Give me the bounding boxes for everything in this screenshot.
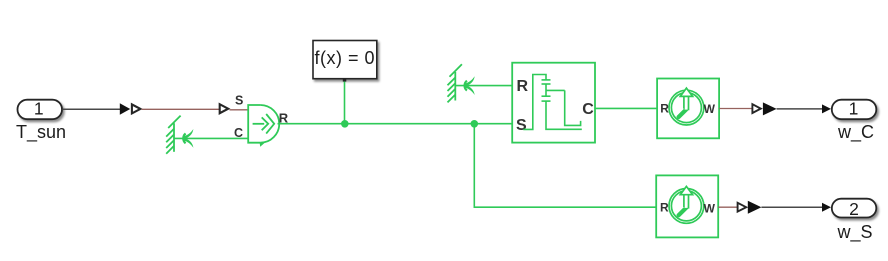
PS wire stub into S port [230,109,249,111]
PS wire converter to S triangle [142,108,220,110]
wire converter 2 to outport 2 [761,206,823,208]
svg-text:R: R [660,101,669,115]
PS wire sensor 2 W to converter [718,206,737,208]
svg-text:w_S: w_S [836,222,872,243]
svg-text:W: W [704,102,716,116]
svg-text:T_sun: T_sun [16,122,66,143]
junction node 2 [471,120,479,128]
wire G1 to C port of velocity source [175,137,249,139]
svg-text:S: S [516,117,527,134]
svg-text:R: R [660,201,669,215]
wire converter 1 to outport 1 [777,108,823,110]
wire inport to converter [62,108,120,110]
svg-text:w_C: w_C [837,122,874,143]
PS-Simulink converter 2 (open + filled triangle) [738,201,762,214]
svg-text:1: 1 [34,99,44,119]
rotational motion sensor 1 [657,79,719,139]
svg-text:R: R [517,78,529,95]
wire planetary C to sensor 1 R [595,107,657,109]
wire G2 to planetary R port [456,85,512,87]
junction node 1 [341,120,349,128]
arrowhead into outport 1 [822,104,831,113]
PS-Simulink converter 1 (open + filled triangle) [752,102,776,115]
velocity source arc arrowhead [260,142,265,146]
rotational motion sensor 2 [656,175,718,237]
wire junction 2 down to sensor row [474,124,656,207]
svg-text:f(x) = 0: f(x) = 0 [315,48,376,68]
planetary gear icon [523,75,582,130]
svg-text:C: C [582,101,594,118]
inport 1 T_sun [18,99,63,120]
solver configuration block f(x)=0 [313,41,377,82]
open triangle at S input [220,104,229,113]
ideal angular velocity source body [248,105,279,143]
outport 1 w_C [832,99,877,120]
rotational reference G1 arrow [183,129,193,148]
wire solver to junction [344,82,346,124]
svg-text:S: S [235,94,243,108]
main green wire R to planetary S [278,123,513,125]
rotational reference G1 wall [166,116,180,154]
outport 2 w_S [832,199,877,219]
PS wire sensor 1 W to converter [719,108,752,110]
planetary gear block [512,63,595,143]
svg-text:C: C [234,126,243,140]
svg-text:2: 2 [849,199,859,219]
arrowhead into outport 2 [822,203,831,212]
svg-text:W: W [704,201,716,215]
rotational reference G2 arrow [465,76,475,95]
rotational reference G2 wall [448,64,462,102]
svg-text:1: 1 [849,99,859,119]
Simulink-PS converter (filled + open triangle) [120,103,141,115]
